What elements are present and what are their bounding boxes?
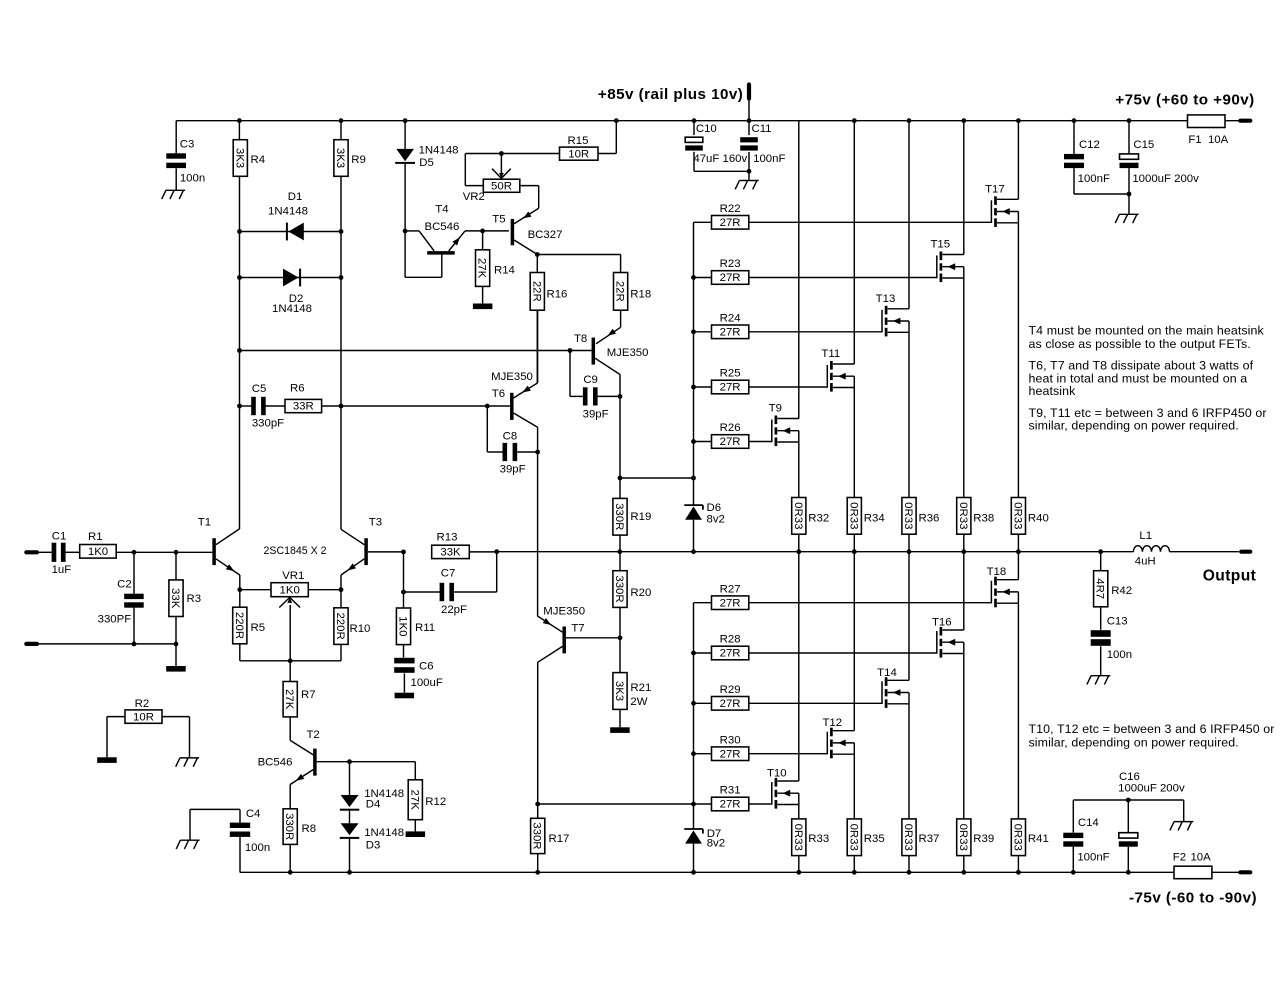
- svg-text:C4: C4: [246, 808, 261, 820]
- node bottom rail dots: [288, 870, 293, 875]
- svg-text:3K3: 3K3: [334, 148, 346, 168]
- svg-text:R6: R6: [290, 382, 305, 394]
- svg-text:39pF: 39pF: [583, 408, 609, 420]
- resistor R33 0R33: [792, 819, 806, 856]
- svg-text:C12: C12: [1079, 139, 1100, 151]
- svg-text:1K0: 1K0: [280, 584, 300, 596]
- svg-text:T2: T2: [306, 729, 319, 741]
- svg-text:T10: T10: [767, 768, 787, 780]
- ground below R12: [406, 831, 426, 837]
- node T3 base / R13: [401, 550, 406, 555]
- fuse F1: [1188, 115, 1226, 128]
- capacitor C2: [133, 552, 135, 594]
- capacitor C7: [403, 552, 405, 608]
- svg-text:T7: T7: [571, 623, 584, 635]
- svg-text:27R: 27R: [720, 648, 741, 660]
- wire T13 drain to rail: [908, 121, 910, 309]
- svg-text:R1: R1: [88, 531, 103, 543]
- ground below R14: [473, 304, 493, 310]
- svg-text:330R: 330R: [613, 503, 625, 530]
- resistor R5: [239, 590, 241, 608]
- svg-text:R24: R24: [720, 313, 741, 325]
- svg-text:33R: 33R: [293, 401, 314, 413]
- svg-text:C3: C3: [180, 139, 195, 151]
- resistor R20: [619, 552, 621, 571]
- svg-text:C14: C14: [1078, 817, 1099, 829]
- svg-text:R13: R13: [437, 532, 458, 544]
- svg-text:R29: R29: [720, 684, 741, 696]
- svg-text:27K: 27K: [408, 790, 420, 811]
- node D5/T4 junction: [403, 229, 408, 234]
- resistor R30: [694, 753, 712, 755]
- svg-text:27R: 27R: [720, 597, 741, 609]
- capacitor C16: [1073, 799, 1183, 801]
- svg-text:R7: R7: [301, 689, 316, 701]
- resistor R3: [175, 552, 177, 580]
- svg-text:C1: C1: [52, 530, 67, 542]
- svg-text:4uH: 4uH: [1135, 556, 1156, 568]
- svg-text:22pF: 22pF: [441, 604, 467, 616]
- svg-text:T15: T15: [930, 239, 950, 251]
- transistor T11 (IRFP450): [826, 365, 828, 388]
- resistor R37 0R33: [902, 819, 916, 856]
- wire T11 source down: [853, 376, 855, 497]
- resistor R42: [1100, 552, 1102, 571]
- svg-text:R30: R30: [720, 734, 741, 746]
- svg-text:T5: T5: [492, 214, 505, 226]
- svg-text:D1: D1: [288, 191, 303, 203]
- resistor R19: [619, 478, 621, 498]
- svg-text:R38: R38: [973, 513, 994, 525]
- potentiometer VR2: [483, 179, 520, 192]
- svg-text:R40: R40: [1028, 513, 1049, 525]
- svg-text:0R33: 0R33: [957, 824, 969, 851]
- ground below R21: [610, 727, 630, 733]
- wire bias tee to gate bus: [620, 477, 694, 479]
- svg-text:BC546: BC546: [424, 221, 459, 233]
- node output line dots: [617, 549, 622, 554]
- svg-text:T11: T11: [821, 348, 840, 360]
- svg-text:R32: R32: [808, 513, 829, 525]
- resistor R34 0R33: [847, 498, 861, 535]
- svg-text:BC327: BC327: [528, 229, 563, 241]
- svg-text:10R: 10R: [568, 148, 589, 160]
- capacitor C15: [1128, 121, 1130, 154]
- svg-text:T17: T17: [985, 183, 1005, 195]
- diode D3: [349, 811, 351, 824]
- wire T16 source down: [963, 642, 965, 819]
- svg-text:39pF: 39pF: [500, 464, 526, 476]
- node T3 emitter: [339, 587, 344, 592]
- wire T8 base from T1 collector: [240, 350, 592, 352]
- svg-text:220R: 220R: [233, 612, 245, 639]
- svg-text:C10: C10: [696, 123, 717, 135]
- wire +85v top rail: [176, 120, 1239, 122]
- resistor R4: [238, 121, 240, 140]
- resistor R40 0R33: [1011, 498, 1025, 535]
- transistor T3: [364, 538, 368, 565]
- svg-text:L1: L1: [1139, 530, 1152, 542]
- svg-text:R23: R23: [720, 258, 741, 270]
- svg-text:R22: R22: [720, 203, 741, 215]
- svg-text:0R33: 0R33: [792, 824, 804, 851]
- svg-text:R35: R35: [864, 833, 885, 845]
- svg-text:100n: 100n: [1107, 649, 1132, 661]
- wire T11 drain to rail: [853, 121, 855, 364]
- resistor R8: [283, 809, 297, 845]
- svg-text:C2: C2: [117, 578, 132, 590]
- fuse F2: [1174, 866, 1212, 879]
- wire output line: [497, 551, 1134, 553]
- transistor T6: [510, 393, 514, 420]
- svg-text:220R: 220R: [334, 612, 346, 639]
- diode D2: [240, 277, 342, 279]
- transistor T7: [566, 637, 620, 639]
- diode D5: [404, 121, 406, 149]
- svg-text:0R33: 0R33: [1011, 824, 1023, 851]
- svg-text:T3: T3: [369, 517, 382, 529]
- svg-text:T1: T1: [198, 516, 211, 528]
- wire lower gate bus: [693, 603, 695, 829]
- transistor T9 (IRFP450): [771, 420, 773, 443]
- svg-text:27R: 27R: [720, 382, 741, 394]
- svg-text:33K: 33K: [440, 547, 461, 559]
- svg-text:R27: R27: [720, 583, 741, 595]
- svg-text:VR2: VR2: [463, 191, 485, 203]
- svg-text:as close as possible to the ou: as close as possible to the output FETs.: [1029, 337, 1251, 351]
- capacitor C8: [486, 406, 488, 452]
- svg-text:T10, T12 etc = between 3 and 6: T10, T12 etc = between 3 and 6 IRFP450 o…: [1029, 722, 1275, 736]
- supply entry stub +85v: [747, 85, 751, 99]
- wire T7 collector to lower bus: [538, 803, 694, 805]
- svg-text:27R: 27R: [720, 748, 741, 760]
- resistor R31: [694, 803, 712, 805]
- svg-text:2W: 2W: [630, 696, 647, 708]
- svg-text:MJE350: MJE350: [543, 605, 585, 617]
- wire R6 row to T6 base: [341, 405, 510, 407]
- ground slash C4: [180, 839, 199, 841]
- wire upper gate bus: [693, 222, 695, 505]
- resistor R14: [482, 231, 484, 250]
- wire T10 source down: [798, 793, 800, 819]
- svg-text:R5: R5: [251, 622, 266, 634]
- resistor R35 0R33: [847, 819, 861, 856]
- svg-text:T6: T6: [492, 388, 505, 400]
- svg-text:R36: R36: [919, 513, 940, 525]
- svg-text:100uF: 100uF: [411, 677, 443, 689]
- svg-text:T4: T4: [435, 204, 448, 216]
- wire T9 source down: [798, 431, 800, 498]
- svg-text:C13: C13: [1107, 615, 1128, 627]
- svg-text:R26: R26: [720, 422, 741, 434]
- svg-text:R19: R19: [630, 511, 651, 523]
- ground below R3: [175, 644, 177, 666]
- svg-text:R39: R39: [973, 833, 994, 845]
- ground below C6: [395, 693, 415, 699]
- node T1 emitter: [237, 587, 242, 592]
- node C5 tap: [237, 404, 242, 409]
- svg-text:27R: 27R: [720, 217, 741, 229]
- wire T9 drain to rail: [798, 121, 800, 419]
- resistor R25: [694, 386, 712, 388]
- svg-text:R42: R42: [1111, 585, 1132, 597]
- svg-text:3K3: 3K3: [233, 148, 245, 168]
- svg-text:27R: 27R: [720, 327, 741, 339]
- svg-text:C8: C8: [503, 431, 518, 443]
- transistor T5: [483, 230, 509, 232]
- transistor T8: [592, 338, 596, 365]
- svg-text:T18: T18: [987, 566, 1007, 578]
- svg-text:C11: C11: [751, 123, 771, 135]
- svg-text:T14: T14: [877, 667, 897, 679]
- resistor R23: [694, 277, 712, 279]
- resistor R12: [414, 762, 416, 780]
- transistor T1: [212, 538, 216, 565]
- resistor R11: [396, 608, 410, 645]
- svg-text:C9: C9: [583, 374, 598, 386]
- transistor T15 (IRFP450): [936, 256, 938, 279]
- resistor R15: [501, 153, 559, 155]
- wire -75v bottom rail: [240, 871, 1239, 873]
- svg-text:1N4148: 1N4148: [268, 206, 308, 218]
- resistor R36 0R33: [902, 498, 916, 535]
- svg-text:BC546: BC546: [258, 756, 293, 768]
- svg-text:R3: R3: [187, 593, 202, 605]
- capacitor C9: [568, 348, 573, 353]
- capacitor C14: [1072, 800, 1074, 833]
- diode D1: [240, 231, 342, 233]
- transistor T13 (IRFP450): [881, 310, 883, 333]
- svg-text:MJE350: MJE350: [607, 347, 649, 359]
- terminal stub -75v: [1240, 870, 1250, 874]
- svg-text:R34: R34: [864, 513, 885, 525]
- node T5 collector: [535, 252, 540, 257]
- svg-text:R20: R20: [630, 587, 651, 599]
- wire from stub to rail: [748, 99, 750, 121]
- transistor T10 (IRFP450): [771, 782, 773, 805]
- wire T12 drain to output line: [853, 552, 855, 731]
- capacitor C11: [748, 121, 750, 135]
- transistor T2: [290, 740, 313, 754]
- resistor R1: [66, 551, 80, 553]
- svg-text:100nF: 100nF: [1078, 173, 1110, 185]
- svg-text:similar, depending on power re: similar, depending on power required.: [1029, 419, 1239, 433]
- svg-text:F2: F2: [1173, 851, 1186, 863]
- terminal stub +75v: [1240, 119, 1250, 123]
- svg-text:R33: R33: [808, 833, 829, 845]
- svg-text:R25: R25: [720, 368, 741, 380]
- svg-text:33K: 33K: [169, 588, 181, 609]
- svg-text:0R33: 0R33: [957, 502, 969, 529]
- resistor R17: [535, 802, 540, 807]
- svg-text:R18: R18: [630, 288, 651, 300]
- svg-text:+75v (+60 to +90v): +75v (+60 to +90v): [1115, 92, 1254, 109]
- wire T3 collector column: [340, 176, 342, 529]
- wire T13 source down: [908, 321, 910, 498]
- wire R1 to T1 base: [116, 551, 212, 553]
- capacitor C6: [394, 658, 414, 664]
- svg-text:8v2: 8v2: [707, 838, 725, 850]
- resistor R26: [694, 441, 712, 443]
- resistor R18: [620, 255, 622, 273]
- svg-text:R4: R4: [251, 154, 266, 166]
- wire T15 drain to rail: [963, 121, 965, 255]
- svg-text:0R33: 0R33: [847, 824, 859, 851]
- svg-text:R37: R37: [919, 833, 940, 845]
- capacitor C1: [37, 551, 52, 553]
- svg-text:330pF: 330pF: [252, 418, 284, 430]
- resistor R10: [340, 590, 342, 608]
- svg-text:0R33: 0R33: [847, 502, 859, 529]
- wire T14 drain to output line: [908, 552, 910, 681]
- svg-text:10A: 10A: [1208, 134, 1229, 146]
- resistor R27: [694, 602, 712, 604]
- svg-text:22R: 22R: [614, 281, 626, 302]
- svg-text:R10: R10: [350, 623, 371, 635]
- svg-text:8v2: 8v2: [707, 513, 725, 525]
- svg-text:1000uF 200v: 1000uF 200v: [1132, 173, 1199, 185]
- zener D6: [684, 504, 703, 506]
- ground below C12/C15: [1119, 213, 1138, 215]
- svg-text:22R: 22R: [530, 281, 542, 302]
- svg-text:T16: T16: [932, 617, 952, 629]
- svg-text:similar, depending on power re: similar, depending on power required.: [1029, 735, 1239, 749]
- resistor R38 0R33: [957, 498, 971, 535]
- svg-text:D6: D6: [707, 502, 722, 514]
- capacitor C4: [239, 809, 241, 823]
- ground below C10/C11: [739, 180, 758, 182]
- resistor R6: [285, 399, 322, 412]
- resistor R39 0R33: [957, 819, 971, 856]
- wiper arrow VR2: [500, 154, 502, 177]
- transistor T4: [405, 230, 419, 232]
- svg-text:1K0: 1K0: [88, 546, 108, 558]
- svg-text:heat in total and must be moun: heat in total and must be mounted on a: [1029, 371, 1248, 385]
- ground below C13: [1091, 675, 1110, 677]
- svg-text:R15: R15: [568, 135, 589, 147]
- svg-text:R21: R21: [630, 682, 651, 694]
- resistor R21: [619, 638, 621, 673]
- wire T18 drain to output line: [1017, 552, 1019, 580]
- svg-text:R8: R8: [302, 823, 317, 835]
- capacitor C5: [240, 405, 253, 407]
- inductor L1: [1133, 546, 1169, 552]
- node R13 right / C7: [494, 549, 499, 554]
- diode D4: [349, 762, 351, 795]
- svg-text:T9: T9: [769, 403, 782, 415]
- wire T1 collector column: [239, 176, 241, 529]
- resistor R2: [125, 710, 162, 723]
- terminal stub output: [1241, 550, 1250, 554]
- transistor T18 (IRFP450): [990, 581, 992, 604]
- wire VR2 left link: [465, 153, 501, 155]
- svg-text:D5: D5: [419, 157, 434, 169]
- svg-text:+85v (rail plus 10v): +85v (rail plus 10v): [598, 86, 743, 103]
- svg-text:100n: 100n: [245, 842, 270, 854]
- svg-text:C16: C16: [1119, 771, 1140, 783]
- svg-text:330PF: 330PF: [98, 613, 132, 625]
- svg-text:R16: R16: [547, 288, 568, 300]
- svg-text:330R: 330R: [283, 813, 295, 840]
- svg-text:10A: 10A: [1190, 851, 1211, 863]
- node T2 base / D4: [347, 759, 352, 764]
- resistor R22: [694, 221, 712, 223]
- svg-text:C7: C7: [441, 568, 456, 580]
- resistor R28: [694, 652, 712, 654]
- svg-text:1N4148: 1N4148: [419, 144, 459, 156]
- node T4 emitter / R14 / T5 base: [480, 229, 485, 234]
- wire input bottom rail: [26, 642, 37, 646]
- ground C16 right: [1183, 800, 1185, 822]
- wire T15 source down: [963, 267, 965, 498]
- svg-text:100nF: 100nF: [1077, 852, 1109, 864]
- svg-text:T4 must be mounted on the main: T4 must be mounted on the main heatsink: [1029, 324, 1265, 338]
- svg-text:R12: R12: [425, 796, 446, 808]
- svg-text:R11: R11: [415, 622, 435, 634]
- svg-text:1K0: 1K0: [397, 616, 409, 636]
- svg-text:27R: 27R: [720, 272, 741, 284]
- svg-text:3K3: 3K3: [613, 681, 625, 701]
- svg-text:T13: T13: [876, 293, 896, 305]
- svg-text:R14: R14: [494, 265, 515, 277]
- svg-text:R17: R17: [549, 833, 570, 845]
- svg-text:heatsink: heatsink: [1029, 384, 1077, 398]
- resistor R7: [289, 661, 291, 682]
- node VR2 wiper: [499, 151, 504, 156]
- svg-text:330R: 330R: [531, 822, 543, 849]
- transistor T16 (IRFP450): [936, 631, 938, 654]
- svg-text:27R: 27R: [720, 698, 741, 710]
- svg-text:1N4148: 1N4148: [272, 303, 312, 315]
- ground slash R2 right: [180, 757, 199, 759]
- transistor T12 (IRFP450): [826, 732, 828, 755]
- svg-text:R2: R2: [135, 698, 150, 710]
- resistor R29: [694, 702, 712, 704]
- wire emitter resistors bottom: [240, 660, 341, 662]
- svg-text:1uF: 1uF: [52, 564, 72, 576]
- transistor T14 (IRFP450): [881, 681, 883, 704]
- node T7 base: [618, 635, 623, 640]
- input terminal stub: [26, 550, 37, 554]
- svg-text:0R33: 0R33: [902, 502, 914, 529]
- zener D7: [684, 828, 703, 830]
- svg-text:-75v (-60 to -90v): -75v (-60 to -90v): [1129, 890, 1257, 907]
- ground below C3: [166, 189, 185, 191]
- svg-text:47uF 160v: 47uF 160v: [693, 153, 747, 165]
- resistor R32 0R33: [792, 498, 806, 535]
- transistor T17 (IRFP450): [990, 200, 992, 223]
- potentiometer VR1: [240, 589, 271, 591]
- capacitor C3: [175, 121, 177, 154]
- svg-text:D3: D3: [366, 840, 381, 852]
- svg-text:10R: 10R: [133, 711, 154, 723]
- svg-text:330R: 330R: [613, 575, 625, 602]
- svg-text:F1: F1: [1188, 134, 1201, 146]
- svg-text:4R7: 4R7: [1094, 578, 1106, 599]
- svg-text:100nF: 100nF: [753, 153, 785, 165]
- wire T16 drain to output line: [963, 552, 965, 630]
- svg-text:27R: 27R: [720, 436, 741, 448]
- wire T17 drain to rail: [1017, 121, 1019, 200]
- svg-text:R9: R9: [351, 154, 366, 166]
- ground bar R2 left: [97, 757, 117, 763]
- svg-text:C6: C6: [419, 661, 434, 673]
- svg-text:0R33: 0R33: [792, 502, 804, 529]
- wire T14 source down: [908, 693, 910, 819]
- svg-text:C5: C5: [252, 383, 267, 395]
- svg-text:1N4148: 1N4148: [364, 827, 404, 839]
- wiper arrow VR1: [279, 597, 289, 607]
